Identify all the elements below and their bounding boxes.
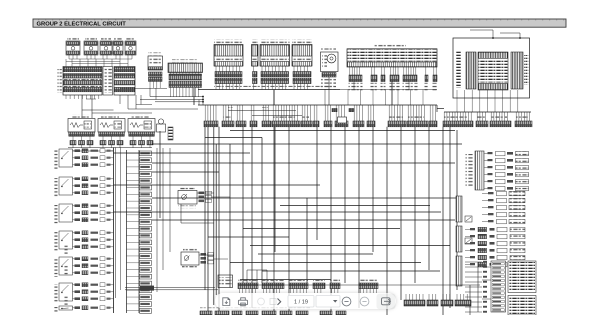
svg-text:GROUP 2 ELECTRICAL CIRCUIT: GROUP 2 ELECTRICAL CIRCUIT (37, 22, 127, 28)
svg-text:1 / 19: 1 / 19 (294, 299, 308, 305)
